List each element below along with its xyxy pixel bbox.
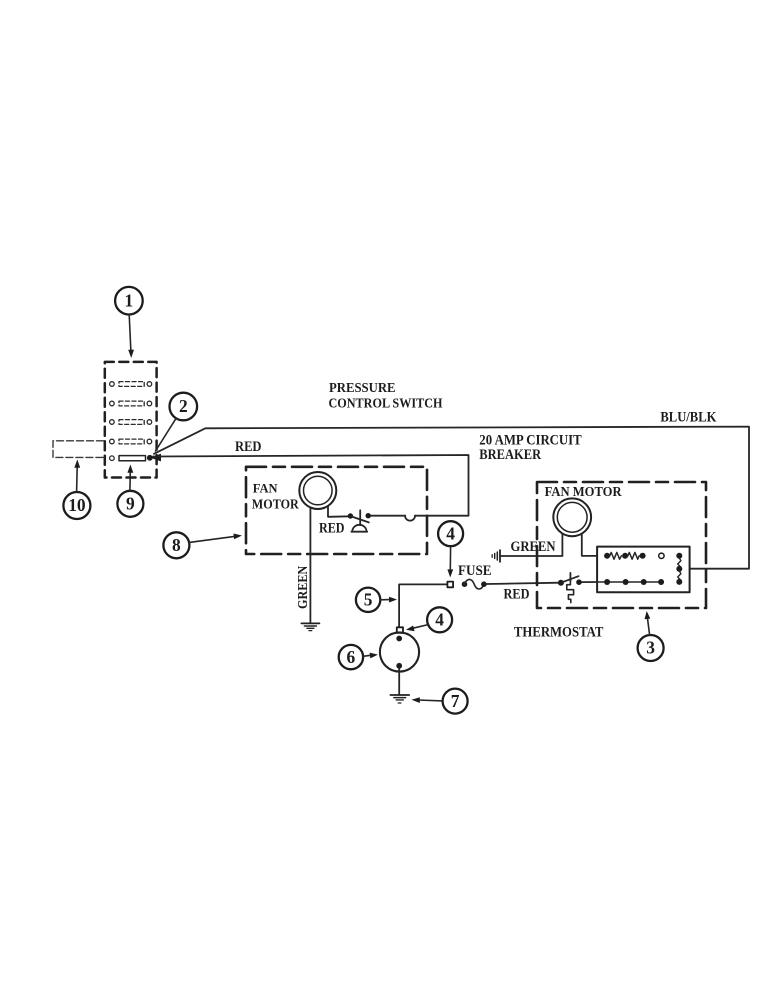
- callout 6: [339, 645, 378, 669]
- svg-text:10: 10: [68, 495, 86, 515]
- thermostat box (item 3) dashed outline: [537, 482, 706, 608]
- svg-text:8: 8: [172, 535, 181, 555]
- svg-text:BLU/BLK: BLU/BLK: [660, 409, 717, 425]
- wire from fuse junction left and down to solenoid: [399, 584, 447, 627]
- thermostat switch contacts: [558, 579, 582, 585]
- callout 2: [156, 393, 198, 451]
- thermostat switch blade: [562, 576, 579, 582]
- motor lead to switch: [328, 506, 350, 517]
- label RED (inside box 8): [319, 520, 345, 536]
- connector pin row 5 (item 9 / item 2 terminal): [110, 456, 146, 461]
- callout 1: [115, 287, 143, 358]
- switch blade: [352, 517, 369, 523]
- svg-text:3: 3: [646, 638, 655, 658]
- svg-text:RED: RED: [319, 520, 345, 536]
- callout 4 (fuse): [438, 521, 463, 577]
- circuit breaker symbol (arc dip in wire): [405, 516, 415, 521]
- wire GREEN down from motor: [309, 508, 311, 623]
- connector pin row 1: [110, 382, 152, 387]
- wire from switch to breaker: [368, 515, 405, 517]
- svg-text:FUSE: FUSE: [458, 563, 492, 579]
- callout 9: [117, 465, 143, 517]
- label FAN MOTOR (left box): [252, 482, 300, 512]
- junction dot and arrowhead at connector row 5: [147, 454, 161, 462]
- label BLU/BLK: [660, 409, 717, 425]
- resistor row: dot, zigzag, dot, zigzag, dot: [604, 552, 646, 559]
- label FUSE: [458, 563, 492, 579]
- wire thermostat to relay block: [582, 581, 598, 583]
- wire from solenoid to ground: [398, 668, 400, 694]
- connector pin row 2: [110, 401, 152, 406]
- fuse F1: [462, 579, 487, 589]
- label GREEN (vertical): [295, 566, 310, 609]
- motor left lead (green): [500, 534, 562, 557]
- callout 5: [356, 588, 397, 612]
- solenoid terminal square (item 4): [397, 627, 403, 633]
- callout 3: [638, 611, 664, 661]
- fan motor M1 (left): [299, 472, 336, 509]
- connector pin row 4: [110, 439, 152, 444]
- motor right lead to relay block: [582, 534, 597, 556]
- label THERMOSTAT: [514, 625, 604, 641]
- svg-text:MOTOR: MOTOR: [252, 497, 300, 512]
- svg-text:2: 2: [179, 396, 188, 416]
- ground (rotated) for green wire: [492, 550, 500, 562]
- svg-text:THERMOSTAT: THERMOSTAT: [514, 625, 604, 641]
- relay right column terminals: [676, 553, 682, 585]
- svg-text:4: 4: [446, 523, 455, 543]
- wire RED from connector to circuit-breaker drop: [153, 455, 469, 516]
- callout 4 (solenoid terminal): [406, 607, 452, 632]
- svg-text:RED: RED: [235, 439, 262, 455]
- ground below green wire: [301, 623, 319, 630]
- fuse junction square (item 4): [447, 582, 453, 588]
- callout 8: [163, 532, 242, 558]
- thermostat stem: [569, 573, 571, 581]
- switch contact dots: [348, 513, 371, 519]
- callout 7: [412, 689, 468, 714]
- svg-text:7: 7: [451, 691, 460, 711]
- fan motor box (item 8) dashed outline: [246, 467, 427, 554]
- svg-text:RED: RED: [504, 587, 530, 603]
- relay / resistor block (solid box): [597, 547, 690, 593]
- svg-text:GREEN: GREEN: [295, 566, 310, 609]
- label RED (fuse wire): [504, 587, 530, 603]
- svg-text:FAN MOTOR: FAN MOTOR: [545, 484, 623, 499]
- svg-text:9: 9: [126, 494, 135, 514]
- fan motor M2 (right): [553, 498, 591, 536]
- relay bottom terminal row: [597, 579, 664, 585]
- ground below solenoid: [390, 695, 409, 703]
- svg-text:4: 4: [435, 610, 444, 630]
- svg-text:GREEN: GREEN: [511, 539, 557, 555]
- wire BLU/BLK : connector to right side down to relay block: [154, 427, 749, 569]
- switch actuator stem: [359, 510, 361, 525]
- svg-text:PRESSURE: PRESSURE: [329, 381, 396, 396]
- wiring harness bracket (item 10): [53, 441, 106, 458]
- solenoid / sending unit (item 6): [380, 632, 419, 671]
- label RED (connector wire): [235, 439, 262, 455]
- label 20 AMP CIRCUIT BREAKER: [479, 433, 582, 463]
- thermostat sensing element (square zigzag): [567, 581, 574, 602]
- wire RED from fuse to thermostat: [487, 583, 561, 584]
- svg-text:1: 1: [125, 290, 134, 310]
- svg-text:5: 5: [364, 590, 373, 610]
- callout 10: [63, 460, 90, 520]
- svg-text:BREAKER: BREAKER: [479, 447, 541, 463]
- connector block (item 1) dashed outline: [105, 362, 157, 478]
- connector pin row 3: [110, 420, 152, 425]
- svg-text:6: 6: [347, 647, 356, 667]
- svg-text:CONTROL SWITCH: CONTROL SWITCH: [329, 397, 443, 412]
- label GREEN (right box): [511, 539, 557, 555]
- svg-text:FAN: FAN: [253, 482, 278, 496]
- label FAN MOTOR (right box): [545, 484, 623, 499]
- thermal dome element: [351, 525, 367, 532]
- relay open terminal: [659, 553, 664, 558]
- label PRESSURE CONTROL SWITCH: [329, 381, 443, 412]
